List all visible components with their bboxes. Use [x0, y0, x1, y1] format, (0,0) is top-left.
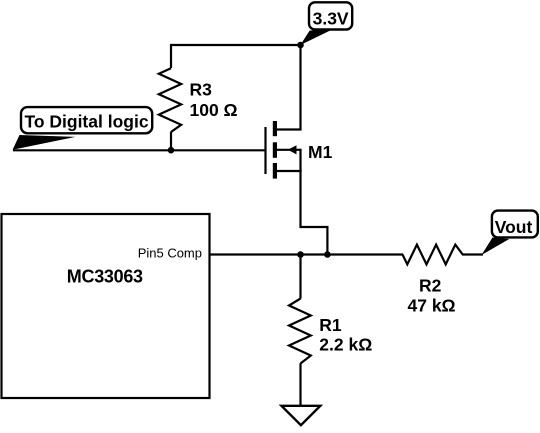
- node junction source jog: [324, 251, 331, 258]
- annotation callout: To Digital logic: [13, 107, 153, 150]
- wire: R3 bottom lead: [170, 132, 172, 150]
- transistor M1 channel bars: [273, 121, 277, 179]
- wire: R1 top lead: [299, 255, 301, 299]
- resistor R1: [289, 299, 311, 364]
- annotation callout: Vout: [482, 211, 538, 255]
- label R2 value: [408, 276, 456, 316]
- svg-text:100 Ω: 100 Ω: [190, 100, 238, 120]
- label R3 value: [190, 80, 238, 120]
- node junction R1: [297, 251, 304, 258]
- svg-text:Pin5 Comp: Pin5 Comp: [138, 246, 202, 261]
- wire: R3 top lead: [170, 44, 172, 68]
- svg-text:R1: R1: [319, 315, 342, 335]
- wire: gate wire from callout to M1 gate: [13, 149, 265, 151]
- svg-text:M1: M1: [308, 142, 333, 162]
- node junction R3/gate: [168, 147, 175, 154]
- wire: R2 to Vout: [462, 253, 483, 255]
- svg-text:R3: R3: [190, 80, 213, 100]
- wire: drain vertical to 3.3V: [276, 45, 301, 130]
- IC U1 MC33063 box: [2, 214, 210, 398]
- svg-text:3.3V: 3.3V: [313, 9, 349, 29]
- resistor R2: [403, 245, 463, 265]
- svg-text:2.2 kΩ: 2.2 kΩ: [319, 334, 372, 354]
- wire: 3.3V rail top horizontal: [171, 44, 301, 46]
- label R1 value: [319, 315, 372, 354]
- power flag 3.3V: [300, 2, 352, 45]
- ground: [282, 406, 321, 425]
- wire: source down with jog to output node: [301, 170, 328, 255]
- node A: 3.3V junction dot: [297, 42, 304, 49]
- transistor M1 body arrow and source connection: [277, 145, 302, 171]
- wire: R1 bottom lead: [299, 363, 301, 405]
- svg-text:To Digital logic: To Digital logic: [24, 111, 148, 131]
- svg-text:R2: R2: [419, 276, 442, 296]
- svg-text:MC33063: MC33063: [67, 267, 143, 287]
- wire: comp output horizontal: [210, 253, 404, 255]
- svg-text:Vout: Vout: [495, 217, 533, 237]
- resistor R3: [159, 68, 181, 132]
- svg-text:47 kΩ: 47 kΩ: [408, 296, 456, 316]
- transistor M1 gate line: [264, 127, 266, 174]
